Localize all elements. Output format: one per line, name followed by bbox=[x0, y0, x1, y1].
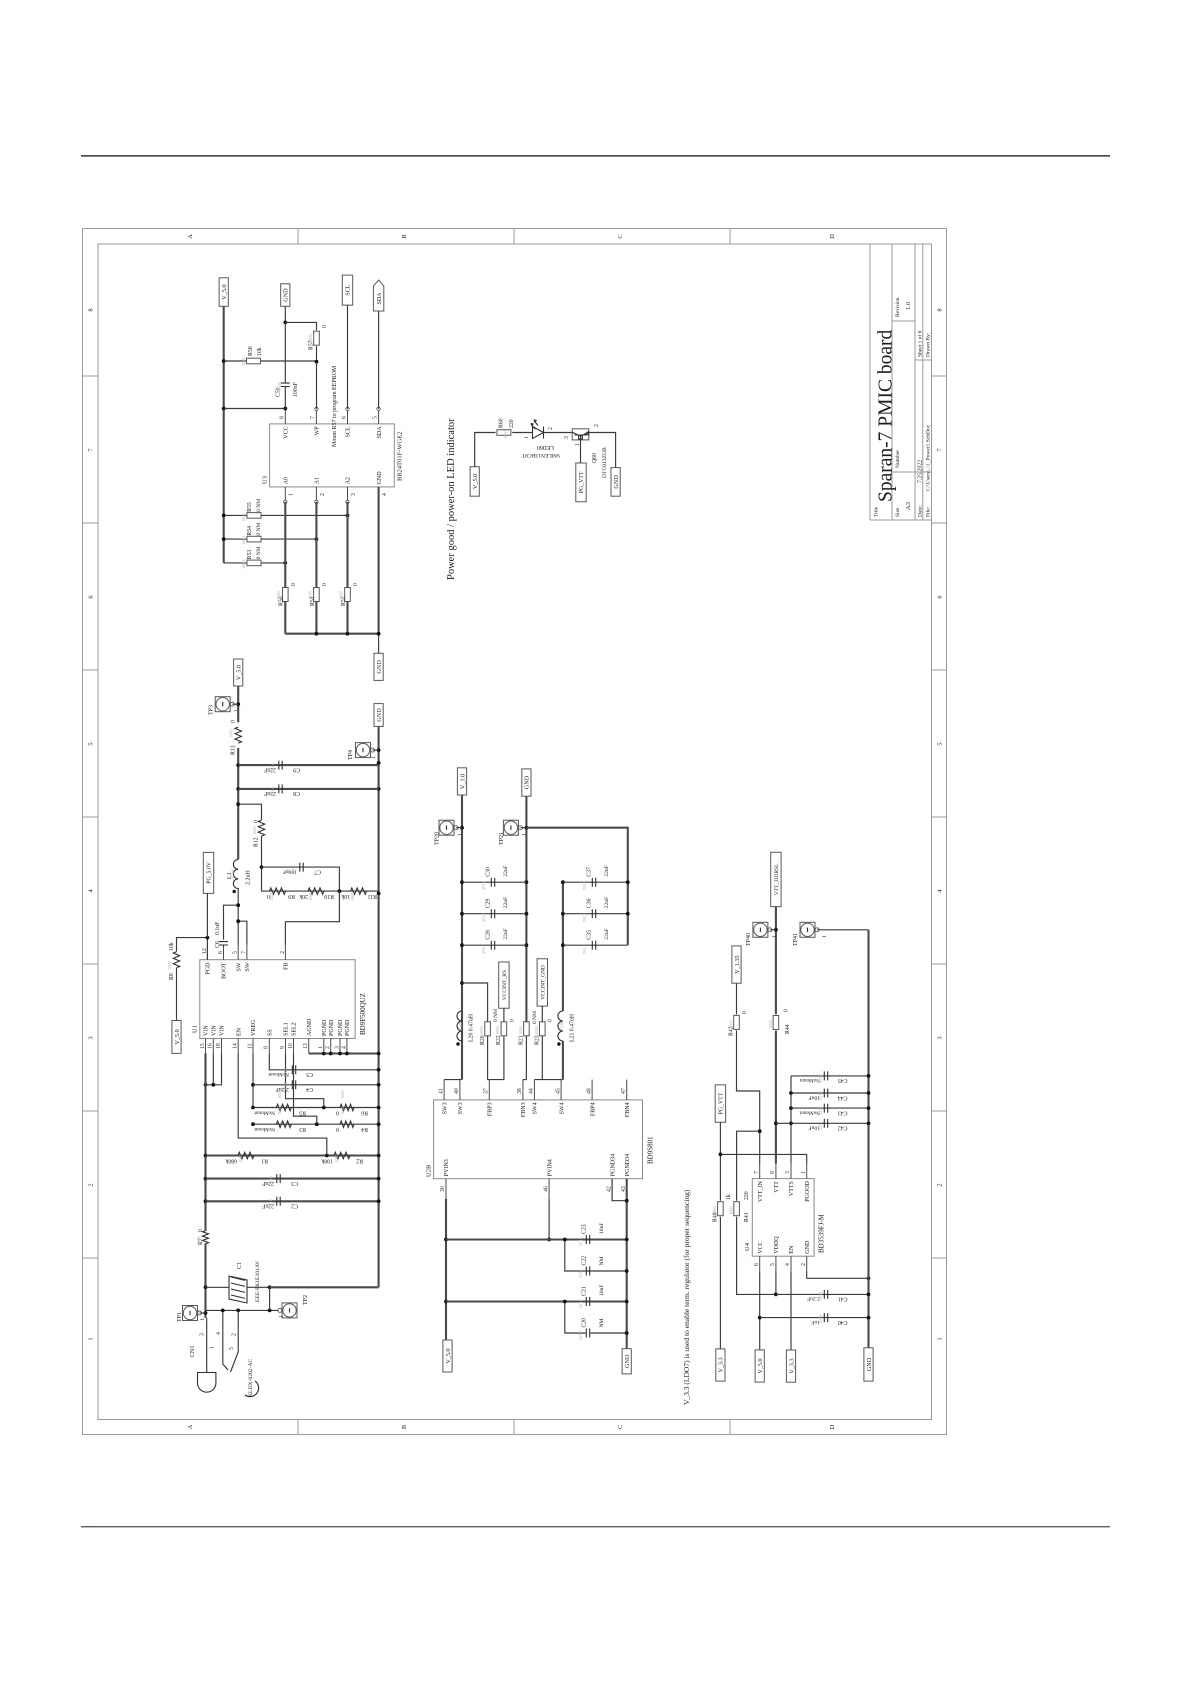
svg-text:VREG: VREG bbox=[251, 1019, 257, 1036]
resistor R9 0 bbox=[270, 888, 286, 894]
wire C29 column bbox=[462, 913, 526, 915]
svg-text:FBP4: FBP4 bbox=[590, 1102, 596, 1116]
svg-text:4: 4 bbox=[785, 1263, 791, 1266]
svg-text:1: 1 bbox=[772, 935, 778, 938]
junction FB tap bbox=[338, 889, 342, 893]
svg-text:3216: 3216 bbox=[578, 1330, 583, 1340]
svg-text:C9: C9 bbox=[293, 766, 300, 772]
svg-text:SMLEN13BC8T: SMLEN13BC8T bbox=[521, 452, 560, 458]
svg-text:GND: GND bbox=[524, 775, 531, 789]
wire SCL line bbox=[347, 305, 349, 409]
svg-text:TP40: TP40 bbox=[746, 933, 752, 946]
svg-text:1005: 1005 bbox=[334, 1153, 339, 1163]
svg-text:VIN: VIN bbox=[212, 1025, 218, 1036]
svg-text:Drawn By:: Drawn By: bbox=[926, 332, 932, 357]
junction R55/A2 bbox=[346, 514, 350, 518]
svg-text:7: 7 bbox=[754, 1171, 760, 1174]
wire SW4 pins join bbox=[534, 1079, 563, 1081]
svg-text:1005: 1005 bbox=[479, 1025, 484, 1035]
GND power port (U2) bbox=[622, 1349, 631, 1374]
svg-text:PGND: PGND bbox=[338, 1019, 344, 1036]
wire C1 bottom to GND rail bbox=[270, 1286, 379, 1288]
wire R20 branch bbox=[462, 983, 488, 1022]
svg-text:L20 0.47uH: L20 0.47uH bbox=[469, 1013, 475, 1042]
wire C40 column bbox=[760, 1317, 869, 1319]
svg-text:45: 45 bbox=[555, 1088, 561, 1094]
svg-text:38: 38 bbox=[517, 1088, 523, 1094]
svg-text:A0: A0 bbox=[284, 477, 290, 484]
output rail V_5.0 bbox=[237, 748, 239, 860]
svg-text:R53: R53 bbox=[247, 550, 253, 560]
svg-text:Revision: Revision bbox=[895, 297, 901, 317]
wire C21 column bbox=[446, 1300, 627, 1302]
wire R54 column bbox=[224, 538, 317, 540]
svg-text:22uF: 22uF bbox=[503, 897, 509, 909]
svg-text:3216: 3216 bbox=[818, 1073, 823, 1083]
svg-text:3216: 3216 bbox=[578, 1236, 583, 1246]
V_3.3 power port (EN) bbox=[786, 1350, 795, 1382]
U3 pin 7 WP bbox=[310, 407, 318, 424]
svg-text:SEL2: SEL2 bbox=[292, 1022, 298, 1036]
U4 pin 2 GND bbox=[801, 1256, 807, 1271]
U1 pin 10 SEL2 bbox=[288, 1039, 294, 1054]
page header rule bbox=[81, 155, 1110, 157]
svg-text:42: 42 bbox=[606, 1186, 612, 1192]
svg-text:SW4: SW4 bbox=[533, 1102, 539, 1114]
svg-text:0.1uF: 0.1uF bbox=[215, 921, 221, 935]
svg-text:C20: C20 bbox=[582, 1318, 588, 1328]
wire C30 column bbox=[462, 881, 526, 883]
svg-text:1608: 1608 bbox=[818, 1291, 823, 1301]
wire C5 column bbox=[269, 1054, 378, 1070]
svg-text:1005: 1005 bbox=[269, 891, 274, 901]
sheet outer border bbox=[83, 229, 947, 1435]
svg-text:46: 46 bbox=[543, 1186, 549, 1192]
svg-text:1005: 1005 bbox=[712, 1205, 717, 1215]
svg-text:10: 10 bbox=[288, 1043, 294, 1049]
svg-text:0: 0 bbox=[231, 720, 237, 723]
svg-text:C28: C28 bbox=[486, 930, 492, 940]
wire C22 stub bbox=[565, 1240, 627, 1272]
wire R3R4 column bbox=[253, 1123, 379, 1125]
svg-text:22uF: 22uF bbox=[604, 928, 610, 940]
svg-text:R12: R12 bbox=[254, 837, 260, 847]
wire SEL2 to divider bbox=[294, 1054, 317, 1125]
svg-text:1: 1 bbox=[234, 709, 240, 712]
svg-text:1: 1 bbox=[318, 1046, 324, 1049]
resistor R13 0 bbox=[235, 727, 241, 743]
svg-text:C8: C8 bbox=[293, 790, 300, 796]
U2B pin 43 PGND34 bbox=[621, 1179, 627, 1199]
svg-text:A: A bbox=[187, 234, 194, 239]
svg-text:0: 0 bbox=[322, 583, 328, 586]
svg-text:3: 3 bbox=[88, 1036, 95, 1039]
U1 pin 2 FB bbox=[280, 945, 286, 960]
svg-text:1005: 1005 bbox=[229, 728, 234, 738]
GND rail of U1 section bbox=[378, 726, 380, 1287]
V_5.0 power port (EEPROM) bbox=[219, 278, 228, 307]
svg-text:2: 2 bbox=[320, 493, 326, 496]
wire GND rail to R21 bbox=[525, 1036, 527, 1080]
wire FB chain bbox=[262, 867, 379, 891]
svg-text:TP41: TP41 bbox=[793, 933, 799, 946]
svg-text:4: 4 bbox=[382, 493, 388, 496]
resistor R5 NoMount bbox=[276, 1104, 291, 1110]
junction input rail / C1 bbox=[204, 1285, 208, 1289]
svg-text:1005: 1005 bbox=[291, 864, 296, 874]
svg-text:R4: R4 bbox=[361, 1126, 368, 1132]
junction PGD node bbox=[206, 936, 210, 940]
svg-text:VCC: VCC bbox=[758, 1241, 764, 1253]
svg-text:Mount R57 to program EEPROM: Mount R57 to program EEPROM bbox=[332, 365, 338, 447]
V_5.0 power port (LED) bbox=[470, 467, 479, 497]
svg-text:C40: C40 bbox=[838, 1319, 848, 1325]
svg-text:5664: 5664 bbox=[230, 869, 235, 879]
test point TP4 bbox=[356, 743, 375, 758]
svg-text:6: 6 bbox=[754, 1263, 760, 1266]
test point TP20 bbox=[439, 820, 458, 835]
svg-text:8: 8 bbox=[937, 308, 944, 311]
PGND rail bbox=[626, 1179, 628, 1349]
svg-text:TP1: TP1 bbox=[177, 1312, 183, 1322]
wire FBN3 jog bbox=[523, 1079, 527, 1081]
wire C2 column bbox=[206, 1200, 379, 1202]
svg-text:U3: U3 bbox=[262, 476, 269, 484]
test point TP2 bbox=[278, 1303, 297, 1318]
wire TP20 stub bbox=[456, 827, 462, 829]
wire V5 drop to VCC node bbox=[224, 408, 286, 410]
test point TP21 bbox=[503, 820, 522, 835]
svg-text:1005: 1005 bbox=[729, 1019, 734, 1029]
svg-text:8: 8 bbox=[279, 416, 285, 419]
wire LED to Q60 bbox=[544, 432, 573, 434]
svg-text:BOOT: BOOT bbox=[222, 962, 228, 979]
svg-text:2012: 2012 bbox=[481, 881, 486, 890]
wire R22 to FBP3 bbox=[489, 1036, 504, 1080]
svg-text:U4: U4 bbox=[744, 1242, 751, 1251]
svg-text:3216: 3216 bbox=[818, 1105, 823, 1115]
svg-text:PGOOD: PGOOD bbox=[805, 1180, 811, 1201]
wire R41 to VDDQ bbox=[737, 1217, 776, 1295]
svg-text:LED60: LED60 bbox=[537, 444, 554, 450]
wire VIN16 bbox=[212, 1054, 214, 1085]
svg-text:C6: C6 bbox=[215, 941, 221, 948]
wire V_1.35 to R42 bbox=[736, 983, 738, 1014]
page footer rule bbox=[81, 1526, 1110, 1527]
svg-text:48: 48 bbox=[586, 1088, 592, 1094]
junction C1 bottom bbox=[268, 1285, 272, 1289]
svg-text:VIN: VIN bbox=[204, 1025, 210, 1036]
svg-text:SW3: SW3 bbox=[442, 1102, 448, 1114]
svg-text:220: 220 bbox=[509, 419, 515, 428]
wire EN line to V_3.3 bbox=[790, 1271, 792, 1350]
wire PVIN4 line bbox=[548, 1199, 550, 1240]
svg-text:TP3: TP3 bbox=[209, 705, 215, 715]
U4 pin 3 VTTS bbox=[785, 1164, 791, 1179]
svg-text:SCL: SCL bbox=[346, 426, 352, 437]
junction VCC/GND column bbox=[283, 321, 287, 325]
U4 pin 7 VTT_IN bbox=[754, 1164, 760, 1179]
wire C37 column bbox=[563, 881, 628, 883]
svg-text:1.0: 1.0 bbox=[905, 302, 912, 310]
svg-text:1608: 1608 bbox=[818, 1314, 823, 1324]
svg-text:1k: 1k bbox=[726, 1194, 732, 1200]
U3 pin 4 GND bbox=[379, 487, 388, 502]
resistor R2 100k bbox=[334, 1152, 350, 1158]
svg-text:FBN3: FBN3 bbox=[521, 1102, 527, 1117]
GND power port (VCCINT) bbox=[522, 769, 531, 796]
svg-text:C3: C3 bbox=[291, 1180, 298, 1186]
svg-text:1608: 1608 bbox=[283, 1081, 288, 1091]
net port SDA bbox=[373, 280, 383, 311]
svg-text:22uF: 22uF bbox=[604, 897, 610, 909]
svg-text:C1: C1 bbox=[237, 1262, 243, 1269]
U2B pin 40 SW3 bbox=[454, 1080, 460, 1100]
svg-text:1005: 1005 bbox=[241, 535, 246, 545]
svg-text:A1: A1 bbox=[315, 477, 321, 484]
svg-text:3216: 3216 bbox=[818, 1120, 823, 1130]
svg-text:Sparan-7 PMIC board: Sparan-7 PMIC board bbox=[876, 330, 897, 502]
svg-text:0: 0 bbox=[548, 1019, 554, 1022]
inductor L1 2.2uH bbox=[233, 860, 239, 894]
GND power port (VTT) bbox=[864, 1348, 873, 1381]
svg-text:R11: R11 bbox=[367, 893, 377, 899]
svg-text:R55: R55 bbox=[247, 502, 253, 512]
svg-text:1: 1 bbox=[289, 493, 295, 496]
wire R53 column bbox=[224, 562, 286, 564]
wire VDDQ line bbox=[775, 1271, 777, 1294]
svg-text:Size: Size bbox=[895, 507, 901, 517]
U1 pin 4 PGND bbox=[341, 1039, 347, 1054]
svg-text:220: 220 bbox=[744, 1191, 750, 1200]
svg-text:GND: GND bbox=[283, 288, 290, 302]
junction EN tap bbox=[325, 1154, 329, 1158]
svg-text:0: 0 bbox=[322, 325, 328, 328]
svg-text:5: 5 bbox=[373, 416, 379, 419]
svg-text:C41: C41 bbox=[838, 1296, 848, 1302]
svg-text:1005: 1005 bbox=[276, 590, 281, 600]
wire C7 branch bbox=[262, 867, 340, 891]
VTTS sense line bbox=[790, 1076, 792, 1164]
svg-text:16: 16 bbox=[208, 1043, 214, 1049]
wire C20 stub bbox=[590, 1332, 626, 1334]
V_1.0 output rail bbox=[461, 795, 463, 1080]
svg-text:BR24T01F-WGE2: BR24T01F-WGE2 bbox=[397, 432, 404, 481]
wire Q60 base to PG_VTT bbox=[580, 440, 582, 463]
svg-text:1: 1 bbox=[371, 756, 377, 759]
test point TP3 bbox=[215, 697, 234, 712]
svg-text:R5: R5 bbox=[299, 1110, 306, 1116]
svg-text:4: 4 bbox=[216, 1332, 222, 1335]
svg-text:6: 6 bbox=[218, 951, 224, 954]
svg-text:7: 7 bbox=[310, 416, 316, 419]
svg-text:C:\Users\..\1_Power1.SchDoc: C:\Users\..\1_Power1.SchDoc bbox=[926, 424, 932, 491]
wire R20 to FBP3 bbox=[488, 1036, 490, 1080]
net port PG_VTT (LED) bbox=[576, 463, 586, 502]
wire C6 to SW bbox=[224, 905, 239, 939]
svg-text:1005: 1005 bbox=[495, 1025, 500, 1035]
svg-text:C44: C44 bbox=[838, 1094, 848, 1100]
svg-text:13: 13 bbox=[303, 1043, 309, 1049]
svg-text:C43: C43 bbox=[838, 1109, 848, 1115]
svg-text:GND: GND bbox=[376, 708, 383, 722]
svg-text:2520: 2520 bbox=[458, 1021, 463, 1031]
svg-text:1005: 1005 bbox=[308, 891, 313, 901]
wire R41 right bbox=[737, 1131, 760, 1201]
CN1 switch contact bbox=[231, 1310, 239, 1372]
junction VDDQ/C41 bbox=[774, 1293, 778, 1297]
IC U4 body bbox=[752, 1179, 814, 1257]
svg-text:R21: R21 bbox=[519, 1035, 525, 1045]
svg-text:2012: 2012 bbox=[481, 913, 486, 922]
svg-text:SCL: SCL bbox=[346, 284, 352, 295]
wire TP column bbox=[206, 1309, 280, 1311]
svg-text:3216: 3216 bbox=[270, 786, 275, 796]
resistor R52 0 bbox=[345, 588, 351, 602]
svg-text:0: 0 bbox=[198, 1229, 204, 1232]
svg-text:0: 0 bbox=[742, 1011, 748, 1014]
U1 pin 11 VREG bbox=[247, 1039, 253, 1054]
svg-text:R3: R3 bbox=[299, 1126, 306, 1132]
wire port to R23 bbox=[541, 1006, 543, 1022]
wire R60 to LED bbox=[512, 432, 532, 434]
svg-text:47: 47 bbox=[621, 1088, 627, 1094]
svg-text:SW: SW bbox=[245, 962, 251, 971]
svg-text:1005: 1005 bbox=[534, 1025, 539, 1035]
svg-text:3216: 3216 bbox=[578, 1268, 583, 1278]
svg-text:3216: 3216 bbox=[578, 1298, 583, 1308]
svg-text:DTC013ZUB: DTC013ZUB bbox=[602, 447, 608, 478]
U1 pin 5 SW bbox=[233, 945, 239, 960]
U1 pin 16 VIN bbox=[208, 1039, 214, 1054]
svg-text:C: C bbox=[617, 1425, 624, 1429]
V_3.3 power port (R40) bbox=[716, 1349, 725, 1381]
svg-text:7: 7 bbox=[241, 951, 247, 954]
svg-text:3216: 3216 bbox=[270, 762, 275, 772]
capacitor C22 NM bbox=[586, 1267, 589, 1276]
svg-text:1: 1 bbox=[801, 1171, 807, 1174]
wire C43 column bbox=[791, 1107, 869, 1109]
wire port to R22 bbox=[503, 1008, 505, 1022]
U1 pin 8 SS bbox=[264, 1039, 270, 1054]
U4 pin 6 VCC bbox=[754, 1256, 760, 1271]
V_5.0 power port (U2 input) bbox=[443, 1340, 452, 1372]
svg-text:R13: R13 bbox=[231, 745, 237, 755]
net port VCCINT_GND bbox=[537, 959, 547, 1006]
wire EEPROM GND jog to R57 bbox=[284, 306, 286, 322]
wire EN route bbox=[238, 1054, 327, 1156]
U1 pin 2 PGND bbox=[325, 1039, 331, 1054]
svg-text:VTTS: VTTS bbox=[789, 1181, 795, 1196]
svg-text:PVIN4: PVIN4 bbox=[547, 1159, 553, 1176]
svg-text:PGND: PGND bbox=[322, 1019, 328, 1036]
svg-text:3: 3 bbox=[785, 1171, 791, 1174]
svg-text:1005: 1005 bbox=[241, 559, 246, 569]
junction input rail / TP1 bbox=[204, 1311, 208, 1315]
U1 pin 1 PGND bbox=[318, 1039, 324, 1054]
net port PG_VTT (U4) bbox=[715, 1085, 725, 1122]
wire input rail junctions bbox=[204, 1154, 208, 1158]
resistor R53 0 NM bbox=[247, 560, 261, 566]
svg-text:C35: C35 bbox=[587, 930, 593, 940]
svg-text:GND: GND bbox=[624, 1354, 631, 1368]
svg-text:V_5.0: V_5.0 bbox=[445, 1348, 452, 1363]
junction VTT_IN/R41 bbox=[758, 1129, 762, 1133]
svg-text:1005: 1005 bbox=[518, 1025, 523, 1035]
svg-text:1005: 1005 bbox=[277, 1105, 282, 1115]
svg-text:1005: 1005 bbox=[340, 1089, 345, 1099]
GND power port (LED) bbox=[611, 468, 620, 497]
inductor L20 0.47uH bbox=[456, 1011, 462, 1046]
wire VCC line to V_5.0 bbox=[759, 1271, 761, 1350]
wire TP3 stub bbox=[232, 703, 238, 705]
wire R8 left bbox=[176, 968, 178, 1021]
svg-text:PGD: PGD bbox=[206, 962, 212, 975]
svg-text:V_3.3: V_3.3 bbox=[788, 1358, 795, 1373]
wire TP column to C1 node bbox=[269, 1287, 271, 1310]
svg-text:R8: R8 bbox=[169, 973, 175, 980]
wire C42 column bbox=[776, 1122, 869, 1124]
GND power port (EEPROM top) bbox=[281, 284, 290, 307]
svg-text:R9: R9 bbox=[288, 893, 295, 899]
svg-text:V_1.0: V_1.0 bbox=[459, 774, 466, 789]
test point TP1 bbox=[183, 1306, 202, 1321]
svg-text:0 NM: 0 NM bbox=[256, 499, 262, 512]
wire R1R2 column bbox=[206, 1154, 379, 1156]
svg-text:B: B bbox=[401, 1424, 408, 1429]
wire A2 line + R52 bbox=[346, 502, 348, 634]
svg-text:Q60: Q60 bbox=[592, 453, 598, 463]
svg-text:EEE-FK1E101AV: EEE-FK1E101AV bbox=[255, 1261, 261, 1302]
wire input rail left of R7 bbox=[204, 1244, 206, 1319]
svg-text:1005: 1005 bbox=[503, 429, 508, 439]
svg-text:680k: 680k bbox=[225, 1158, 237, 1164]
svg-text:2: 2 bbox=[232, 1333, 238, 1336]
svg-text:PGND: PGND bbox=[345, 1019, 351, 1036]
svg-text:A: A bbox=[187, 1424, 194, 1429]
resistor R4 0 bbox=[340, 1121, 354, 1127]
wire R5R6 column bbox=[253, 1107, 379, 1109]
U3 pin 6 SCL bbox=[342, 407, 350, 424]
svg-text:R23: R23 bbox=[535, 1035, 541, 1045]
svg-text:R54: R54 bbox=[247, 526, 253, 536]
svg-text:R41: R41 bbox=[744, 1212, 750, 1222]
svg-text:C23: C23 bbox=[582, 1224, 588, 1234]
wire C1 top lead bbox=[206, 1286, 230, 1288]
svg-text:Sheet 1 of 6: Sheet 1 of 6 bbox=[916, 330, 923, 357]
svg-text:R22: R22 bbox=[496, 1035, 502, 1045]
svg-text:1: 1 bbox=[822, 935, 828, 938]
svg-text:NoMount: NoMount bbox=[254, 1110, 275, 1116]
svg-text:A2: A2 bbox=[346, 477, 352, 484]
connector CN1 KLDX-0202-AC barrel jack bbox=[198, 1373, 216, 1393]
svg-text:BD9F500QUZ: BD9F500QUZ bbox=[359, 993, 367, 1035]
svg-text:V_5.0: V_5.0 bbox=[221, 284, 228, 299]
IC U1 body bbox=[200, 960, 355, 1039]
wire R42 to VTT_IN node bbox=[737, 1030, 760, 1131]
svg-text:C7: C7 bbox=[314, 868, 321, 874]
svg-text:15: 15 bbox=[200, 1043, 206, 1049]
svg-text:0: 0 bbox=[353, 583, 359, 586]
svg-text:A3: A3 bbox=[905, 502, 912, 510]
wire GND pin 2 return bbox=[807, 1271, 869, 1278]
wire TP21 stub bbox=[521, 827, 527, 829]
svg-text:TP20: TP20 bbox=[435, 832, 441, 845]
svg-text:5: 5 bbox=[937, 742, 944, 745]
svg-text:VCCINT_GND: VCCINT_GND bbox=[541, 965, 547, 1000]
svg-text:41: 41 bbox=[438, 1088, 444, 1094]
svg-text:R10: R10 bbox=[324, 893, 334, 899]
